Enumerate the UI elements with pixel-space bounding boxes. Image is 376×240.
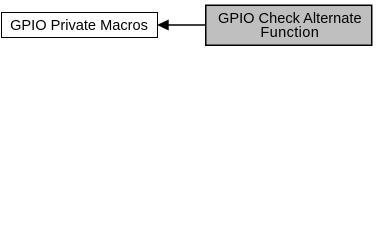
- svg-text:GPIO Private Macros: GPIO Private Macros: [10, 18, 148, 34]
- svg-text:Function: Function: [260, 25, 319, 41]
